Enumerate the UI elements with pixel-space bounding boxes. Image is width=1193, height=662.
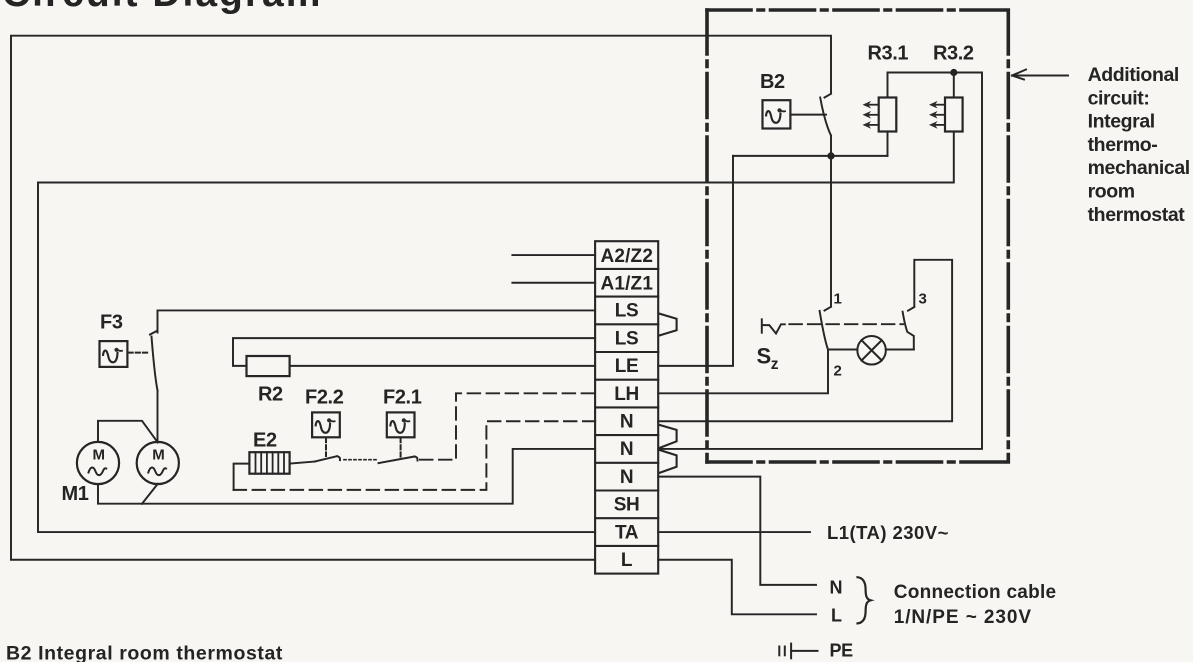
svg-text:R3.1: R3.1: [868, 42, 909, 64]
svg-text:N: N: [620, 412, 633, 433]
wire: LE right to B2 junction: [658, 156, 733, 366]
wire: R3 top bus: [658, 73, 982, 449]
wire: LH to Sz contact 2: [658, 350, 828, 394]
wire: B2 box to blade: [790, 114, 826, 116]
svg-text:Circuit Diagram: Circuit Diagram: [2, 0, 320, 15]
terminal tab between N/N (upper): [659, 425, 677, 448]
svg-text:A2/Z2: A2/Z2: [601, 246, 653, 267]
thermal switch F2.1 blade: [379, 457, 418, 464]
brace for connection cable: [858, 577, 871, 623]
wire: R3.2 top riser: [953, 73, 955, 98]
svg-text:L: L: [621, 550, 633, 571]
resistor R3.2: [945, 98, 963, 132]
wire: lamp right lead: [886, 349, 914, 351]
svg-text:TA: TA: [615, 522, 639, 543]
wire: E2 left to dashed N branch: [234, 464, 250, 490]
svg-text:room: room: [1088, 181, 1135, 203]
dotted mechanical link F2.2-F2.1: [344, 459, 376, 461]
svg-text:B2 Integral room thermostat: B2 Integral room thermostat: [6, 643, 283, 662]
sensor box F3: [100, 341, 128, 367]
svg-text:N: N: [620, 467, 633, 488]
svg-text:thermostat: thermostat: [1088, 204, 1186, 226]
svg-text:SH: SH: [614, 495, 640, 516]
svg-text:F2.2: F2.2: [305, 387, 344, 409]
wire: E2 right to F2.2 switch: [290, 462, 315, 464]
terminal tab between N/N (lower): [659, 450, 677, 473]
wire: N1 to Sz contact 3 hook: [658, 260, 952, 421]
wire: R2 to LE: [290, 365, 595, 367]
thermal switch F2.2 blade: [315, 456, 340, 461]
node: junction dot at R3.2 top: [950, 69, 957, 76]
switch Sz blade 1: [820, 311, 828, 350]
svg-text:LE: LE: [615, 356, 638, 377]
svg-text:thermo-: thermo-: [1088, 134, 1158, 156]
lamp H: [857, 336, 886, 365]
svg-text:circuit:: circuit:: [1088, 87, 1150, 109]
wire: motor top link: [98, 421, 158, 443]
wire: R3.1 bottom riser: [887, 132, 889, 156]
svg-text:M: M: [152, 447, 164, 464]
sensor box F2.2: [312, 412, 340, 437]
wire: LS1 to F3 switch: [158, 310, 596, 332]
sensor box B2: [763, 100, 791, 128]
svg-text:LS: LS: [615, 301, 638, 322]
heater E2: [249, 452, 289, 474]
svg-text:LH: LH: [614, 384, 639, 405]
dashed wire: F2.1 to LH terminal: [420, 393, 595, 459]
svg-text:1/N/PE ~ 230V: 1/N/PE ~ 230V: [894, 607, 1032, 628]
switch Sz contact 1 tick: [825, 307, 832, 311]
wire: B2 switch vertical through junction to Sz contact 1: [830, 136, 832, 307]
sensor box F2.1: [387, 412, 415, 437]
thermal switch F3 blade: [152, 337, 158, 391]
svg-text:3: 3: [919, 291, 927, 308]
motor M1 circle 2: [137, 442, 179, 484]
svg-text:M1: M1: [62, 483, 89, 505]
wire: junction horizontal to R3.1: [733, 155, 888, 157]
switch Sz blade 3: [903, 312, 914, 350]
svg-text:B2: B2: [760, 71, 785, 93]
switch B2 blade: [820, 98, 831, 136]
arrow to additional circuit note: [1012, 70, 1068, 80]
svg-text:L: L: [831, 606, 842, 626]
PE terminal symbol: [779, 644, 817, 659]
heat arrows R3.1: [863, 101, 879, 129]
wire: motor bottom bus to N: [98, 449, 595, 504]
wire: A2/Z2 stub: [512, 254, 595, 256]
wire: TA to R3.2 bottom: [38, 132, 954, 533]
svg-text:R2: R2: [258, 384, 283, 406]
switch Sz contact 3 tick: [908, 307, 914, 311]
svg-text:2: 2: [834, 363, 842, 380]
dashed link F2.1 box to blade: [400, 438, 402, 458]
wire: L loop (L terminal - left side - top - B2 switch): [11, 36, 831, 560]
wire: lamp left lead: [828, 349, 857, 351]
svg-text:F3: F3: [100, 312, 123, 334]
svg-text:PE: PE: [830, 641, 854, 661]
wire: R3.1 top riser: [887, 73, 889, 98]
terminal tab between LS/LS: [659, 314, 677, 336]
note: additional circuit text: [1088, 64, 1190, 226]
svg-text:Integral: Integral: [1088, 111, 1155, 133]
wire: TA to L1 label: [658, 531, 810, 533]
wire: A1/Z1 stub: [512, 282, 595, 284]
dashed enclosure: additional circuit box: [707, 10, 1008, 462]
svg-text:M: M: [92, 447, 104, 464]
svg-text:Sz: Sz: [757, 344, 779, 374]
svg-text:E2: E2: [253, 429, 277, 451]
terminal labels: [601, 246, 654, 571]
svg-text:L1(TA) 230V~: L1(TA) 230V~: [827, 522, 949, 543]
svg-text:N: N: [830, 578, 843, 598]
svg-text:N: N: [620, 439, 633, 460]
svg-text:1: 1: [834, 291, 842, 308]
node: junction dot under B2 switch: [827, 152, 834, 159]
switch B2 contact tick: [825, 94, 832, 98]
dashed mechanical link Sz: [789, 323, 903, 325]
svg-text:R3.2: R3.2: [933, 42, 974, 64]
svg-text:mechanical: mechanical: [1088, 157, 1190, 179]
motor M1 circle 1: [77, 442, 119, 484]
theta symbol in F3: [103, 348, 122, 363]
heat arrows R3.2: [929, 101, 945, 129]
dashed link F3 box to blade: [129, 352, 150, 354]
terminal block body: [595, 241, 658, 573]
manual actuator symbol: [762, 319, 785, 333]
wire: LS2 loop to R2: [233, 338, 595, 366]
wire: L to connection L: [658, 560, 816, 615]
resistor R2: [247, 356, 290, 376]
svg-text:A1/Z1: A1/Z1: [601, 274, 654, 295]
dashed link F2.2 box to blade: [325, 438, 327, 456]
svg-text:Additional: Additional: [1088, 64, 1179, 86]
dashed wire: E2 branch to N terminal: [234, 421, 595, 490]
wire: motor 2 bottom diagonal: [142, 484, 158, 504]
wire: N3 to connection N: [658, 477, 816, 585]
wire: F3 switch to motor M1: [157, 391, 159, 443]
resistor R3.1: [879, 98, 897, 132]
svg-text:Connection cable: Connection cable: [894, 582, 1056, 603]
thermal switch F3 contact tick: [150, 331, 157, 335]
svg-text:F2.1: F2.1: [383, 387, 422, 409]
svg-text:LS: LS: [615, 328, 638, 349]
